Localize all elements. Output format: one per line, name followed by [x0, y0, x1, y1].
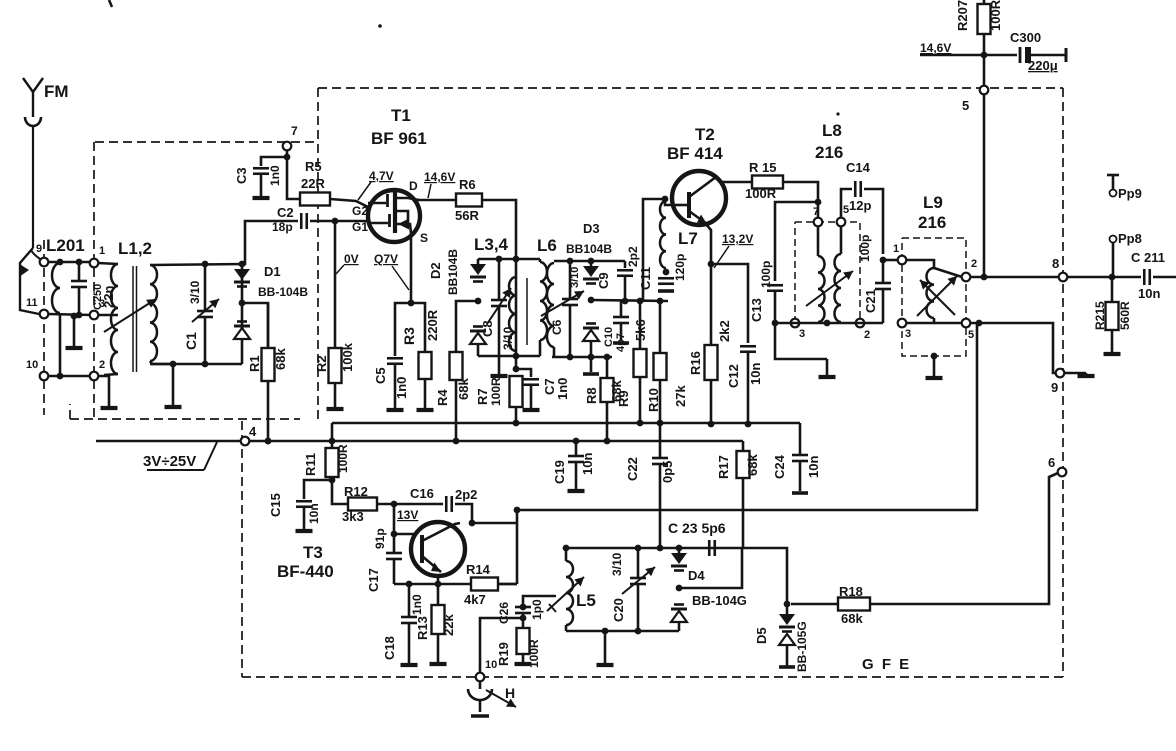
label GFE [862, 656, 911, 673]
junction D3 mid [588, 297, 595, 304]
terminal 8 [1059, 273, 1068, 282]
tuning arrow L6 arrow [541, 291, 584, 316]
label R215 [1093, 301, 1107, 330]
junction R16 bus [708, 421, 715, 428]
svg-text:D1: D1 [264, 264, 281, 279]
variable capacitor C6 [562, 261, 578, 357]
wire C13 branch [775, 202, 818, 281]
label C9 [596, 272, 611, 289]
svg-text:D5: D5 [754, 627, 769, 644]
svg-text:10n: 10n [580, 453, 595, 475]
junction C19 tee [573, 438, 580, 445]
junction R8 bus [604, 438, 611, 445]
tuning arrow L1,2 tuning [104, 299, 156, 332]
leader 0,7V [392, 266, 409, 290]
junction D1 top [239, 261, 246, 268]
label C18 [382, 636, 397, 660]
resistor R10 [654, 301, 667, 423]
tuning arrow C20 arrow [622, 567, 655, 594]
label 0,7V [374, 252, 398, 266]
T1 source lead [396, 219, 411, 234]
wire C3 branch [261, 157, 287, 166]
terminal L8 pin 7 [814, 218, 823, 227]
junction supply node [981, 52, 988, 59]
T1 drain lead [396, 198, 419, 200]
svg-text:R14: R14 [466, 562, 491, 577]
svg-text:100R: 100R [745, 186, 777, 201]
wire tank to C2 [242, 221, 298, 264]
wire L8b top [840, 226, 843, 254]
label 14,6V drain [424, 170, 455, 184]
wire pin3 to L1 tap [98, 314, 118, 317]
leader 0V [336, 265, 344, 274]
terminal 6 [1058, 468, 1067, 477]
svg-text:G2: G2 [352, 204, 368, 218]
tuning arrow L8 tuning [806, 271, 853, 306]
junction R2 top [332, 218, 339, 225]
label R2 [314, 355, 329, 372]
wire C12 bottom [747, 352, 750, 424]
wire C211 out [1153, 276, 1176, 279]
varactor diode D5 [779, 604, 795, 666]
T1 gate 2 lead [368, 202, 386, 205]
svg-text:5: 5 [968, 329, 974, 341]
wire bus tuning (lower) [96, 440, 743, 443]
wire bus AGC (upper) [332, 422, 800, 425]
label C2 [277, 205, 294, 220]
wire supply rail [920, 54, 1017, 57]
label C5 value [394, 377, 409, 399]
terminal L8 pin 3 [791, 319, 800, 328]
svg-text:Q7V: Q7V [374, 252, 398, 266]
terminal L9 pin 2 [962, 273, 971, 282]
label pin 5 [843, 204, 849, 216]
label C23 5p6 [668, 520, 726, 536]
junction D4 top [676, 545, 683, 552]
junction R215 node [1109, 274, 1116, 281]
wire R7 bottom [515, 407, 518, 423]
label R16 [688, 351, 703, 375]
label C24 value [806, 456, 821, 478]
T2 base lead [673, 204, 689, 207]
junction R7 bus [513, 420, 520, 427]
end bar below D5 [779, 665, 795, 669]
wire L6 bottom lead [553, 347, 556, 357]
wire D1 column [241, 264, 244, 364]
svg-text:0V: 0V [344, 252, 359, 266]
wire terminal 11 to L1,2 pin 3 [48, 314, 92, 315]
label C300 [1010, 30, 1041, 45]
svg-text:C24: C24 [772, 454, 787, 479]
label R3 [401, 327, 417, 345]
svg-text:100p: 100p [759, 261, 773, 288]
wire R11 to R12 [332, 480, 348, 504]
variable capacitor C8 [491, 259, 507, 356]
junction C1 bottom [202, 361, 209, 368]
resistor R19 [517, 628, 530, 654]
label S [420, 231, 428, 245]
svg-text:R6: R6 [459, 177, 476, 192]
label 13,2V [722, 232, 753, 246]
label pin 3 [905, 328, 911, 340]
svg-text:FM: FM [44, 82, 69, 101]
label R207 [955, 0, 970, 31]
label C11 [638, 267, 653, 290]
svg-text:10: 10 [485, 659, 497, 671]
svg-text:R19: R19 [496, 642, 511, 666]
junction L9 feed node [880, 257, 887, 264]
junction collector node [469, 520, 476, 527]
terminal 9 (L201) [40, 258, 49, 267]
junction R10 row [657, 298, 664, 305]
wire T2 collector to R15 [721, 181, 752, 184]
label node 10 [485, 659, 497, 671]
svg-text:10n: 10n [307, 503, 321, 524]
FM antenna [23, 78, 43, 248]
transistor T1 body [368, 190, 420, 242]
dashed box input-stage left edge [93, 142, 95, 419]
dashed box oscillator left edge [241, 421, 243, 677]
ground C18 [401, 663, 418, 665]
label R12 [344, 484, 368, 499]
svg-text:12p: 12p [849, 198, 871, 213]
svg-text:C6: C6 [550, 319, 564, 335]
inductor L1 primary [111, 264, 118, 374]
label C9 value [626, 246, 640, 267]
junction D1 mid [239, 300, 246, 307]
T1 gate 1 lead [368, 222, 388, 225]
junction source node [408, 300, 415, 307]
svg-text:C14: C14 [846, 160, 871, 175]
wire osc output line [517, 322, 977, 510]
svg-text:C22: C22 [625, 457, 640, 481]
label T3 type [277, 562, 334, 581]
resistor R8 [601, 357, 614, 441]
headphone jack H [468, 681, 492, 716]
tuning arrow C8 arrow [487, 288, 511, 324]
svg-text:BB104B: BB104B [566, 242, 612, 256]
svg-text:100R: 100R [527, 639, 541, 668]
label C10 [603, 327, 615, 347]
inductor L8 winding a [818, 256, 825, 322]
svg-text:H: H [505, 685, 515, 701]
svg-text:C8: C8 [480, 320, 495, 337]
label R5 [305, 159, 322, 174]
label R9 value [633, 319, 648, 341]
wire D4 bottom stem [678, 622, 681, 631]
svg-text:C18: C18 [382, 636, 397, 660]
wire supply drop [983, 55, 986, 86]
label Pp8 [1118, 231, 1142, 246]
resistor R13 [432, 584, 445, 662]
label terminal 11 [26, 297, 38, 309]
capacitor C7 [523, 379, 539, 385]
svg-text:S: S [420, 231, 428, 245]
wire R16 bottom [710, 380, 713, 424]
resistor R17 [737, 451, 750, 478]
resistor R1 [262, 303, 275, 441]
junction R4 bus [453, 438, 460, 445]
label C22 [625, 457, 640, 481]
wire emitter rail [394, 583, 517, 586]
wire C13 bottom [775, 291, 827, 359]
T2 emitter lead [689, 211, 707, 224]
label L8 title [822, 121, 842, 140]
label T1 type [371, 129, 427, 148]
inductor L6 winding [547, 263, 554, 347]
svg-text:C17: C17 [366, 568, 381, 592]
svg-text:68k: 68k [841, 611, 863, 626]
label R11 [303, 453, 318, 476]
svg-text:T1: T1 [391, 106, 411, 125]
terminal 10 (AFC) [476, 673, 485, 682]
svg-text:4p7: 4p7 [615, 333, 627, 352]
label C10 value [615, 333, 627, 352]
label C1 [183, 332, 199, 350]
junction C250 bottom [76, 312, 83, 319]
label C3 value [268, 165, 282, 186]
wire L9 top to pin2 [934, 268, 962, 277]
end bar C300 end [1064, 53, 1068, 57]
junction C6 top [567, 258, 574, 265]
capacitor C19 [568, 441, 584, 489]
end bar below D3 [583, 372, 599, 376]
terminal node 5 crossing [980, 86, 989, 95]
label L7 title [678, 229, 698, 248]
label terminal 1 [99, 245, 105, 257]
label C211 [1131, 250, 1165, 265]
varactor diode D2 [470, 264, 486, 344]
svg-text:R10: R10 [646, 388, 661, 412]
wire R12 to C16 [377, 503, 443, 506]
T1 channel bar [393, 190, 397, 233]
test point Pp9 [1107, 175, 1119, 197]
inductor L5 [566, 561, 573, 625]
label C5 [373, 367, 388, 384]
scan speck near L8 [836, 112, 839, 115]
core L1,2 [133, 266, 137, 372]
junction C20 bottom [635, 628, 642, 635]
label L9 title [923, 193, 943, 212]
wire L6 bottom rail [552, 356, 612, 359]
svg-text:C26: C26 [497, 602, 511, 624]
resistor R5 [300, 193, 330, 206]
label R207 value [988, 0, 1003, 31]
terminal 1 (L1,2) [90, 259, 99, 268]
ground L8 [819, 359, 836, 377]
T3 base bar [420, 535, 424, 563]
junction node5-L9 junction [981, 274, 988, 281]
label C300 value [1028, 58, 1058, 73]
capacitor C17 [386, 534, 402, 584]
dashed box input-stage bottom edge [70, 418, 300, 420]
dashed box input-stage top edge [95, 141, 318, 143]
terminal L9 pin 1 [898, 256, 907, 265]
junction C9 row [622, 298, 629, 305]
label R13 [415, 616, 430, 640]
dashed box GFE right edge [1062, 88, 1064, 677]
label C8 [480, 320, 495, 337]
label D2 [428, 262, 443, 279]
dashed box GFE top edge [318, 87, 1063, 89]
wire C16 to collector node [455, 504, 517, 523]
resistor R4 [450, 352, 463, 380]
svg-text:4,7V: 4,7V [369, 169, 394, 183]
label R14 [466, 562, 491, 577]
wire C9 top lead [624, 261, 627, 268]
L5 arrow tail tick [549, 604, 556, 612]
label R18 [839, 584, 863, 599]
wire C7 branch [516, 369, 531, 377]
svg-text:L1,2: L1,2 [118, 239, 152, 258]
resistor R215 [1106, 277, 1119, 352]
label C211 value [1138, 286, 1160, 301]
svg-text:BB-104B: BB-104B [258, 285, 308, 299]
svg-text:68k: 68k [273, 348, 288, 370]
wire L4 bottom lead [539, 340, 542, 356]
svg-text:2: 2 [971, 258, 977, 270]
svg-text:R12: R12 [344, 484, 368, 499]
svg-text:G F E: G F E [862, 656, 911, 673]
svg-text:BF 414: BF 414 [667, 144, 723, 163]
label C20 value [610, 552, 624, 576]
wire R5 to G2 [330, 199, 368, 207]
label C14 value [849, 198, 871, 213]
svg-text:2p2: 2p2 [626, 246, 640, 267]
svg-text:C 23 5p6: C 23 5p6 [668, 520, 726, 536]
junction L5 top [563, 545, 570, 552]
label L5 title [576, 591, 596, 610]
junction L8 gnd stem [824, 320, 831, 327]
label C20 [611, 598, 626, 622]
wire R11 lead [331, 423, 334, 448]
label C13 value [759, 261, 773, 288]
svg-text:R3: R3 [401, 327, 417, 345]
resistor R16 [705, 345, 718, 380]
junction R12-C16 node [391, 501, 398, 508]
label 13V [397, 508, 418, 522]
wire node to L9 pin1 [883, 259, 898, 262]
terminal 9 hook [31, 250, 40, 259]
label node 6 [1048, 455, 1055, 470]
label R2 value [340, 342, 355, 372]
svg-text:Pp9: Pp9 [1118, 186, 1142, 201]
wire pin7 into coil [817, 226, 820, 256]
wire L5 tap to C26 [523, 596, 556, 604]
ground C19 [568, 489, 585, 491]
capacitor C12 [740, 346, 756, 352]
ground C3 [253, 196, 270, 198]
varactor diode D3 [583, 266, 599, 341]
resistor R3 [419, 352, 432, 379]
inductor L201 [52, 263, 60, 313]
dashed box L8 [795, 222, 860, 323]
test point Pp8 [1110, 236, 1117, 278]
label C26 [497, 602, 511, 624]
end bar below C24 [792, 491, 808, 495]
capacitor C15 [296, 501, 312, 507]
junction L7 bottom [663, 269, 670, 276]
label G2 [352, 204, 368, 218]
svg-text:56R: 56R [455, 208, 479, 223]
wire L9 pin2 to node 8 [970, 276, 1059, 279]
leader 14,6V [428, 184, 431, 198]
svg-text:R207: R207 [955, 0, 970, 31]
label R13 value [441, 614, 456, 636]
terminal L9 pin 3 [898, 319, 907, 328]
capacitor C13 [767, 285, 783, 291]
svg-text:120p: 120p [673, 254, 687, 281]
label R17 value [745, 454, 760, 476]
wire D2 stem [477, 259, 480, 268]
wire C9 to row [624, 276, 627, 301]
capacitor C10 [613, 301, 629, 341]
label R6 value [455, 208, 479, 223]
wire C12 branch [711, 264, 748, 343]
wire C3 to gnd [260, 174, 263, 196]
dashed box GFE bottom edge [242, 676, 1063, 678]
junction gnd stem tank [170, 361, 177, 368]
svg-text:R8: R8 [584, 387, 599, 404]
label R10 value [673, 385, 688, 407]
terminal L8 pin 2 [856, 319, 865, 328]
label node 8 [1052, 256, 1059, 271]
wire node9 gnd lead [1064, 372, 1086, 375]
svg-text:D: D [409, 179, 418, 193]
wire base bias drop [643, 199, 665, 301]
label 0V [344, 252, 359, 266]
svg-text:G1: G1 [352, 220, 368, 234]
svg-text:BB-104G: BB-104G [692, 593, 747, 608]
label C12 value [748, 363, 763, 385]
T2 base bar [687, 192, 691, 218]
resistor R6 [456, 194, 482, 207]
wire C15 bottom [303, 507, 306, 529]
resistor R11 [326, 448, 339, 477]
svg-text:220μ: 220μ [1028, 58, 1058, 73]
variable capacitor C20 [630, 548, 646, 631]
label R15 [749, 160, 776, 175]
label C21 [863, 289, 878, 313]
junction L9 gnd stem [931, 353, 938, 360]
label R215 value [1118, 301, 1132, 330]
junction L201 top [57, 259, 64, 266]
svg-text:R9: R9 [616, 390, 631, 407]
junction C12 tee [708, 261, 715, 268]
wire R3 top [411, 303, 425, 352]
svg-text:100R: 100R [988, 0, 1003, 31]
tuning arrow H plug arrow [486, 690, 516, 707]
tuning arrow L9 tuning a [917, 276, 957, 316]
svg-text:5: 5 [962, 98, 969, 113]
supply tag 3V-25V [143, 442, 217, 470]
svg-text:4k7: 4k7 [464, 592, 486, 607]
wire source to C5 [395, 303, 411, 356]
label R7 [475, 388, 490, 405]
label C21 value [858, 235, 872, 262]
wire T1 drain to R6 [417, 199, 456, 202]
transistor T2 body [672, 171, 726, 225]
svg-text:11: 11 [26, 297, 38, 309]
svg-text:R16: R16 [688, 351, 703, 375]
junction bus B x268 [265, 438, 272, 445]
label T2 type [667, 144, 723, 163]
svg-text:3: 3 [905, 328, 911, 340]
svg-text:68k: 68k [745, 454, 760, 476]
ground R3 [417, 408, 434, 410]
junction rail x516 bottom [513, 353, 520, 360]
label D3 type [566, 242, 612, 256]
